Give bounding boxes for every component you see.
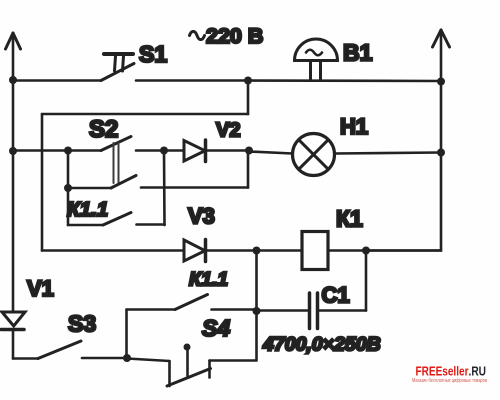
wire down to V3 line [41, 114, 44, 251]
switch S1 (push switch) [101, 54, 134, 81]
switch S2 pole 1 [101, 137, 164, 151]
svg-text:К1.1: К1.1 [67, 198, 108, 221]
wire top to right rail [248, 79, 441, 82]
junction node right rail / B1 wire [437, 78, 445, 86]
wire to lamp H1 [249, 152, 293, 154]
push button S4 [167, 344, 211, 387]
wire S2 left vertical [67, 151, 70, 226]
svg-text:Магазин бесплатных цифровых то: Магазин бесплатных цифровых товаров [412, 378, 487, 384]
svg-text:220 В: 220 В [206, 24, 263, 48]
wire V2 anode down to K1.1 contact [163, 151, 166, 226]
svg-text:С1: С1 [322, 283, 350, 308]
svg-text:В1: В1 [343, 40, 373, 66]
relay contact K1.1 (lower) [127, 295, 257, 359]
watermark FREEseller.RU [412, 364, 487, 385]
svg-text:S2: S2 [89, 116, 118, 143]
left supply rail arrow [6, 33, 21, 49]
junction node S2 pole2 left [64, 184, 72, 192]
junction node V2 cathode [245, 147, 253, 155]
capacitor C1 [257, 251, 367, 329]
relay contact K1.1 (upper) [68, 213, 165, 226]
svg-text:К1: К1 [336, 206, 363, 232]
relay coil K1 [302, 232, 328, 270]
svg-text:К1.1: К1.1 [189, 269, 228, 291]
wire V1 to S3 [13, 357, 38, 360]
wire across to left [42, 113, 248, 116]
S2 mechanical linkage [114, 143, 119, 183]
svg-text:S3: S3 [68, 311, 96, 337]
junction node bus / S2 left [64, 147, 72, 155]
junction node S3 / K1.1 branch [123, 354, 131, 362]
wire V2 cathode down to pole2 [247, 151, 250, 188]
junction node S1 output [244, 77, 252, 85]
svg-text:V2: V2 [216, 120, 240, 142]
svg-text:Н1: Н1 [340, 114, 368, 139]
junction node C1 left branch top [253, 247, 261, 255]
diode V1 [1, 312, 25, 359]
lamp H1 [293, 134, 335, 176]
svg-text:FREEseller: FREEseller [416, 364, 469, 379]
switch S2 pole 2 [68, 176, 248, 189]
svg-text:S1: S1 [139, 41, 167, 67]
wire S1 node down [247, 81, 250, 115]
junction node K1 output / C1 right branch [362, 247, 370, 255]
wire lamp H1 to right rail [335, 153, 442, 154]
right supply rail arrow [433, 30, 450, 47]
wire bus from left rail [13, 149, 101, 152]
wire right rail [366, 30, 441, 251]
svg-text:.RU: .RU [469, 364, 487, 379]
diode V2 [164, 140, 249, 162]
junction node V2 anode [160, 147, 168, 155]
svg-text:S4: S4 [202, 315, 230, 341]
junction node left rail / bus [9, 147, 17, 155]
wire left rail [12, 33, 15, 312]
junction node right rail / H1 wire [437, 149, 445, 157]
junction node C1 left [253, 307, 261, 315]
junction node left rail / S1 [9, 76, 17, 84]
wire center vertical down to S4 line [255, 251, 258, 361]
wire S4 to center vertical [210, 359, 256, 362]
bell B1 [295, 39, 338, 80]
label ~220V [190, 24, 264, 48]
wire K1 to right rail [328, 249, 441, 252]
wire to S1 [13, 79, 101, 82]
svg-text:4700,0×250В: 4700,0×250В [262, 334, 381, 356]
svg-text:V3: V3 [188, 204, 215, 229]
wire S1 contact to node [136, 79, 248, 82]
switch S3 [38, 341, 127, 359]
diode V3 [184, 240, 302, 262]
wire S3 node to S4 [127, 359, 170, 362]
wire V3 line left [42, 249, 184, 252]
svg-text:V1: V1 [27, 276, 54, 301]
